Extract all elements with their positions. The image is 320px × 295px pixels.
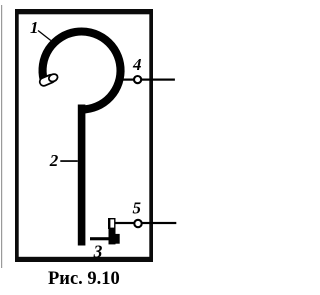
valve side nub: [116, 234, 120, 244]
svg-text:Рис. 9.10: Рис. 9.10: [48, 269, 120, 289]
frame border: [15, 9, 153, 262]
pointer line for label 1: [38, 31, 51, 41]
valve body black bar: [109, 228, 116, 244]
tube hook (part 1): [43, 32, 121, 110]
svg-text:5: 5: [133, 199, 142, 218]
terminal 5 circle: [134, 220, 141, 227]
svg-text:2: 2: [49, 151, 59, 170]
svg-text:4: 4: [132, 55, 142, 74]
tube stem (part 2): [78, 105, 86, 246]
terminal 5 wire: [115, 222, 177, 224]
valve assembly (part 3): feed pipe: [90, 237, 116, 240]
valve white top piece: [109, 219, 115, 229]
terminal 4 wire: [116, 79, 175, 81]
svg-text:1: 1: [30, 18, 39, 37]
page edge shadow line: [1, 5, 2, 268]
pointer line for label 2: [60, 160, 78, 162]
svg-text:3: 3: [93, 241, 103, 261]
terminal 4 circle: [134, 76, 141, 83]
open tube tip with mouth ellipse: [39, 72, 59, 87]
